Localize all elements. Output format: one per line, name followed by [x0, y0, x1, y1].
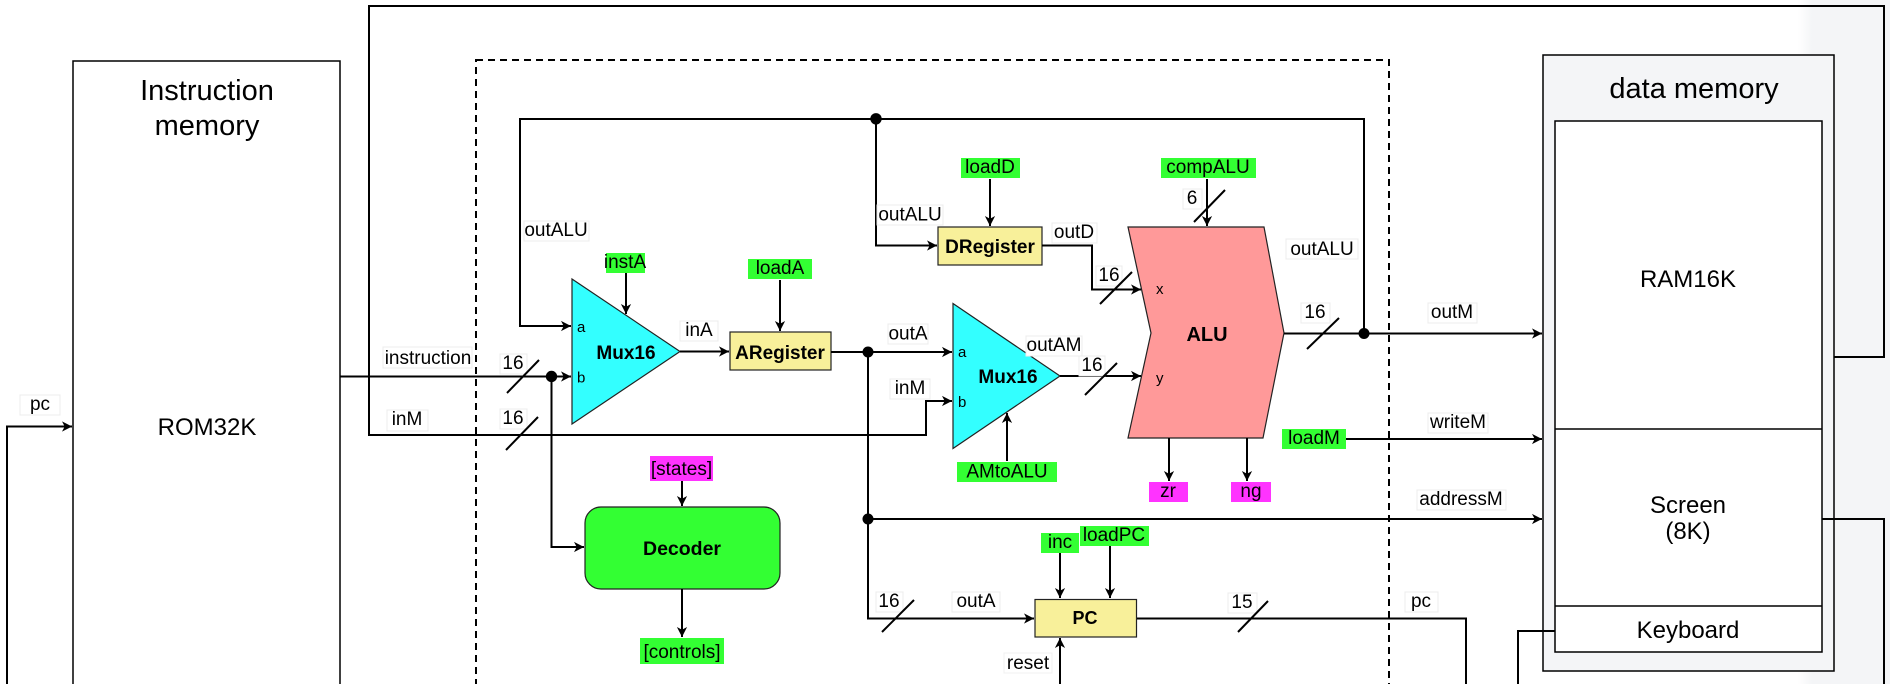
wire inM to mux2 b label — [890, 378, 930, 399]
wire ng flag — [1231, 438, 1271, 502]
svg-text:16: 16 — [1098, 265, 1119, 286]
outALU label — [877, 205, 943, 225]
outA label PC in — [952, 592, 1000, 612]
wire writeM with loadM label — [1282, 412, 1542, 449]
svg-text:outAM: outAM — [1027, 335, 1082, 356]
svg-text:16: 16 — [878, 591, 899, 612]
wire keyboard input — [1518, 631, 1555, 684]
svg-text:instruction: instruction — [385, 348, 472, 369]
alu ALU — [1128, 157, 1284, 438]
svg-text:RAM16K: RAM16K — [1640, 266, 1736, 293]
svg-text:a: a — [577, 319, 586, 336]
svg-text:ARegister: ARegister — [735, 343, 825, 364]
compALU arrow — [1206, 179, 1208, 226]
instruction memory box — [73, 61, 340, 684]
svg-text:[states]: [states] — [651, 459, 712, 480]
controls arrow — [681, 589, 683, 637]
svg-text:[controls]: [controls] — [643, 642, 720, 663]
bus slash — [506, 417, 538, 450]
svg-text:b: b — [958, 394, 966, 411]
svg-text:outALU: outALU — [878, 205, 941, 226]
register ARegister — [730, 258, 831, 370]
svg-text:outA: outA — [956, 591, 995, 612]
6 label — [1183, 189, 1202, 209]
wire instruction to decoder — [552, 377, 585, 548]
svg-text:(8K): (8K) — [1665, 518, 1710, 545]
svg-text:Screen: Screen — [1650, 492, 1726, 519]
svg-text:Instruction: Instruction — [140, 75, 274, 107]
svg-text:outALU: outALU — [524, 220, 587, 241]
svg-text:outA: outA — [888, 324, 927, 345]
svg-text:ng: ng — [1240, 481, 1261, 502]
svg-text:6: 6 — [1187, 188, 1198, 209]
register PC — [876, 525, 1149, 684]
svg-text:inM: inM — [895, 378, 926, 399]
node ALU out junction — [1359, 328, 1370, 339]
svg-text:pc: pc — [30, 394, 50, 415]
wire outAM to ALU y — [1026, 335, 1141, 395]
inM label — [387, 410, 428, 431]
svg-text:compALU: compALU — [1166, 157, 1249, 178]
svg-text:Mux16: Mux16 — [596, 343, 655, 364]
node addressM junction — [863, 514, 874, 525]
svg-text:loadM: loadM — [1288, 428, 1340, 449]
svg-text:loadD: loadD — [965, 157, 1015, 178]
reset label — [1004, 653, 1052, 673]
mux Mux16 #1 — [572, 252, 680, 424]
wire zr flag — [1149, 438, 1188, 502]
16 label — [500, 409, 527, 429]
svg-text:b: b — [577, 370, 585, 387]
svg-text:memory: memory — [155, 110, 260, 142]
inc arrow — [1059, 553, 1061, 598]
instA arrow — [625, 273, 627, 314]
svg-text:outD: outD — [1054, 222, 1094, 243]
svg-text:Mux16: Mux16 — [978, 367, 1037, 388]
loadD label — [961, 158, 1020, 178]
inc label — [1041, 533, 1079, 553]
svg-text:a: a — [958, 344, 967, 361]
svg-text:inM: inM — [392, 409, 423, 430]
wire screen output right — [1822, 519, 1884, 684]
wire addressM — [868, 489, 1542, 519]
register DRegister — [938, 157, 1042, 265]
AMtoALU label — [957, 462, 1057, 482]
instA label — [606, 253, 645, 273]
svg-text:zr: zr — [1160, 481, 1177, 502]
wire inM big loop from data memory — [369, 6, 1884, 450]
svg-text:AMtoALU: AMtoALU — [966, 462, 1047, 483]
controls label — [640, 638, 724, 664]
svg-text:outM: outM — [1431, 302, 1473, 323]
wire pc input to instruction memory — [7, 394, 72, 684]
states arrow — [681, 481, 683, 506]
16 label — [500, 354, 527, 374]
loadA arrow — [779, 280, 781, 331]
svg-text:Decoder: Decoder — [643, 538, 721, 560]
mux Mux16 #2 — [953, 304, 1060, 483]
loadA label — [748, 259, 812, 279]
svg-text:ALU: ALU — [1186, 324, 1227, 346]
svg-text:PC: PC — [1072, 608, 1097, 628]
svg-text:addressM: addressM — [1419, 489, 1502, 510]
compALU label — [1161, 158, 1256, 178]
wire inA — [680, 320, 729, 352]
bus slash — [507, 360, 539, 393]
svg-text:16: 16 — [502, 353, 523, 374]
outALU label — [524, 221, 589, 241]
svg-text:16: 16 — [502, 408, 523, 429]
svg-text:inc: inc — [1048, 532, 1072, 553]
AMtoALU arrow — [1006, 413, 1008, 461]
states label — [650, 456, 713, 481]
svg-text:data memory: data memory — [1609, 73, 1779, 105]
svg-text:inA: inA — [685, 320, 713, 341]
svg-text:x: x — [1156, 281, 1164, 298]
reset arrow — [1059, 638, 1061, 684]
svg-text:pc: pc — [1411, 591, 1431, 612]
svg-text:16: 16 — [1081, 355, 1102, 376]
svg-text:outALU: outALU — [1290, 239, 1353, 260]
svg-text:ROM32K: ROM32K — [158, 414, 257, 441]
wire outA down to PC and addressM — [863, 352, 1035, 619]
node top junction — [870, 113, 881, 124]
pc label — [20, 395, 60, 415]
svg-text:loadPC: loadPC — [1083, 525, 1145, 546]
wire outA — [831, 324, 952, 358]
wire pc output — [1137, 591, 1466, 684]
wire instruction — [340, 347, 571, 393]
svg-text:16: 16 — [1304, 302, 1325, 323]
loadD arrow — [989, 179, 991, 226]
instruction label — [383, 347, 472, 368]
svg-text:instA: instA — [604, 252, 647, 273]
gray right margin panel — [1812, 0, 1890, 684]
svg-text:Keyboard: Keyboard — [1637, 617, 1740, 644]
wire into DRegister from top feedback — [876, 119, 943, 246]
decoder Decoder — [585, 456, 780, 664]
RAM16K chip — [1555, 121, 1822, 652]
CPU dashed boundary box — [476, 60, 1389, 684]
wire outALU feedback top — [520, 113, 1364, 333]
svg-text:reset: reset — [1007, 653, 1050, 674]
wire ALU out / outM — [1284, 239, 1542, 349]
wire outD to ALU x — [1042, 222, 1141, 304]
data memory box — [1543, 55, 1834, 671]
node instruction junction — [546, 371, 557, 382]
svg-text:DRegister: DRegister — [945, 237, 1035, 258]
node outA junction — [863, 347, 874, 358]
16 label PC in — [876, 592, 903, 612]
loadPC label — [1080, 526, 1149, 546]
svg-text:15: 15 — [1231, 592, 1252, 613]
svg-text:loadA: loadA — [756, 258, 805, 279]
svg-text:writeM: writeM — [1429, 412, 1486, 433]
loadPC arrow — [1109, 546, 1111, 598]
svg-text:y: y — [1156, 370, 1164, 387]
